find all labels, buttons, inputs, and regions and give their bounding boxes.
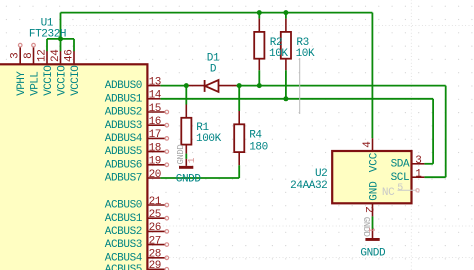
svg-text:GNDD: GNDD bbox=[360, 247, 386, 259]
svg-text:R4: R4 bbox=[249, 130, 262, 142]
svg-text:1: 1 bbox=[186, 157, 197, 163]
svg-text:ADBUS4: ADBUS4 bbox=[105, 133, 143, 145]
svg-text:ACBUS3: ACBUS3 bbox=[105, 239, 142, 251]
svg-text:3: 3 bbox=[415, 155, 421, 167]
svg-text:17: 17 bbox=[149, 129, 161, 141]
svg-text:13: 13 bbox=[149, 76, 161, 88]
svg-text:18: 18 bbox=[149, 142, 161, 154]
svg-text:27: 27 bbox=[149, 235, 161, 247]
svg-text:ADBUS6: ADBUS6 bbox=[105, 159, 142, 171]
svg-text:1: 1 bbox=[366, 227, 377, 233]
svg-text:24AA32: 24AA32 bbox=[290, 180, 327, 192]
svg-text:ADBUS1: ADBUS1 bbox=[105, 93, 143, 105]
svg-text:2: 2 bbox=[362, 206, 374, 212]
svg-text:U1: U1 bbox=[41, 17, 54, 29]
svg-text:10K: 10K bbox=[296, 48, 315, 60]
svg-text:ACBUS4: ACBUS4 bbox=[105, 252, 143, 264]
svg-text:GNDD: GNDD bbox=[176, 145, 186, 165]
svg-text:46: 46 bbox=[64, 50, 76, 62]
svg-text:180: 180 bbox=[249, 141, 268, 153]
svg-text:24: 24 bbox=[50, 49, 62, 62]
svg-text:28: 28 bbox=[149, 249, 161, 261]
svg-text:12: 12 bbox=[37, 50, 49, 62]
svg-text:VCC: VCC bbox=[368, 152, 380, 172]
svg-text:25: 25 bbox=[149, 209, 161, 221]
svg-text:VCCIO: VCCIO bbox=[70, 65, 82, 96]
svg-text:ACBUS5: ACBUS5 bbox=[105, 264, 142, 270]
svg-text:26: 26 bbox=[149, 222, 161, 234]
svg-text:NC: NC bbox=[382, 187, 395, 199]
svg-text:ACBUS2: ACBUS2 bbox=[105, 226, 142, 238]
svg-text:8: 8 bbox=[23, 53, 35, 59]
svg-text:VPHY: VPHY bbox=[16, 71, 28, 96]
svg-text:U2: U2 bbox=[315, 168, 327, 180]
svg-text:VCCIO: VCCIO bbox=[56, 65, 68, 96]
svg-text:21: 21 bbox=[149, 196, 162, 208]
svg-text:1: 1 bbox=[415, 168, 422, 180]
svg-text:ACBUS1: ACBUS1 bbox=[105, 213, 143, 225]
svg-text:ADBUS3: ADBUS3 bbox=[105, 120, 142, 132]
svg-text:16: 16 bbox=[149, 116, 161, 128]
svg-text:FT232H: FT232H bbox=[29, 29, 66, 41]
svg-text:10K: 10K bbox=[269, 48, 288, 60]
svg-text:GNDD: GNDD bbox=[176, 173, 202, 185]
svg-text:ADBUS2: ADBUS2 bbox=[105, 107, 142, 119]
svg-text:D: D bbox=[210, 64, 217, 76]
svg-text:VCCIO: VCCIO bbox=[43, 65, 55, 96]
svg-text:14: 14 bbox=[149, 90, 162, 102]
svg-text:3: 3 bbox=[10, 53, 22, 59]
svg-text:ADBUS5: ADBUS5 bbox=[105, 146, 142, 158]
svg-text:ADBUS0: ADBUS0 bbox=[105, 80, 142, 92]
svg-text:4: 4 bbox=[362, 141, 374, 148]
svg-text:GND: GND bbox=[368, 181, 380, 201]
svg-text:100K: 100K bbox=[196, 133, 222, 145]
svg-text:SDA: SDA bbox=[391, 158, 410, 170]
svg-text:ACBUS0: ACBUS0 bbox=[105, 200, 142, 212]
svg-text:ADBUS7: ADBUS7 bbox=[105, 173, 142, 185]
svg-text:20: 20 bbox=[149, 169, 161, 181]
svg-text:15: 15 bbox=[149, 103, 161, 115]
svg-text:VPLL: VPLL bbox=[29, 72, 41, 96]
svg-text:5: 5 bbox=[397, 183, 403, 194]
svg-text:19: 19 bbox=[149, 156, 161, 168]
